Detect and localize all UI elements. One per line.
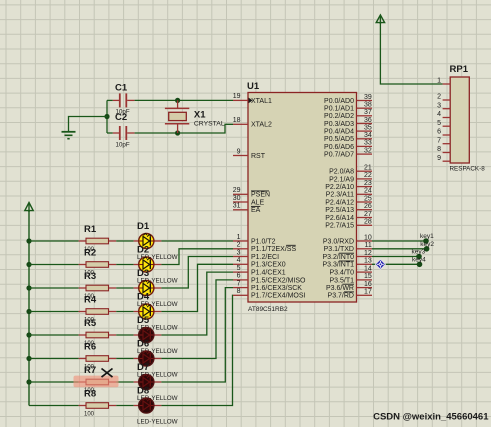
svg-text:27: 27	[364, 211, 372, 218]
wire bus to R4	[29, 311, 79, 313]
svg-text:RP1: RP1	[450, 64, 469, 75]
svg-text:12: 12	[364, 250, 372, 257]
resistor R7 100	[79, 365, 117, 394]
svg-text:38: 38	[364, 102, 372, 109]
wire VCC bus (vertical)	[28, 211, 30, 406]
wire C1/C2 left vertical	[106, 100, 108, 133]
svg-text:PSEN: PSEN	[251, 192, 270, 199]
svg-text:EA: EA	[251, 207, 261, 214]
wire D8 to U1 pin 8	[161, 295, 233, 405]
wire U1 pin 12 to key3	[372, 256, 419, 258]
svg-text:P2.0/A8: P2.0/A8	[329, 169, 354, 176]
svg-text:P3.5/T1: P3.5/T1	[329, 277, 354, 284]
svg-text:D8: D8	[137, 385, 149, 396]
svg-text:D3: D3	[137, 268, 149, 279]
svg-text:P1.4/CEX1: P1.4/CEX1	[251, 270, 286, 277]
wire bus to R5	[29, 334, 79, 336]
ground	[62, 132, 76, 139]
svg-text:23: 23	[364, 180, 372, 187]
power symbol VCC (left rail)	[25, 203, 33, 213]
svg-text:26: 26	[364, 203, 372, 210]
svg-text:39: 39	[364, 94, 372, 101]
svg-text:C1: C1	[115, 82, 128, 93]
svg-text:P0.6/AD6: P0.6/AD6	[324, 144, 354, 151]
svg-text:P2.4/A12: P2.4/A12	[325, 199, 354, 206]
wire bus to R3	[29, 287, 79, 289]
wire bus to R2	[29, 264, 79, 266]
junction bus/R5	[26, 332, 31, 337]
junction bus/R6	[26, 356, 31, 361]
node key1	[420, 233, 434, 244]
svg-text:22: 22	[364, 172, 372, 179]
svg-text:29: 29	[233, 187, 241, 194]
svg-text:15: 15	[364, 273, 372, 280]
svg-text:34: 34	[364, 132, 372, 139]
svg-text:3: 3	[437, 102, 441, 109]
svg-text:1: 1	[237, 234, 241, 241]
svg-text:R8: R8	[84, 389, 96, 400]
svg-text:P3.2/INT0: P3.2/INT0	[322, 254, 354, 261]
svg-text:25: 25	[364, 195, 372, 202]
U1 left pin names	[251, 98, 306, 300]
svg-text:6: 6	[237, 273, 241, 280]
svg-text:XTAL1: XTAL1	[251, 98, 272, 105]
resistor R1 100	[79, 224, 117, 253]
wire U1 pin 10 to key1	[372, 240, 426, 242]
svg-text:32: 32	[364, 147, 372, 154]
svg-text:CSDN @weixin_45660461: CSDN @weixin_45660461	[373, 412, 489, 423]
junction bus/R7	[26, 379, 31, 384]
svg-text:key4: key4	[412, 256, 426, 263]
resistor R2 100	[79, 248, 117, 277]
svg-text:21: 21	[364, 165, 372, 172]
svg-text:5: 5	[437, 120, 441, 127]
svg-text:P3.3/INT1: P3.3/INT1	[322, 262, 354, 269]
svg-text:P0.4/AD4: P0.4/AD4	[324, 129, 354, 136]
svg-text:CRYSTAL: CRYSTAL	[194, 121, 225, 128]
wire D7 to U1 pin 7	[161, 288, 233, 382]
wire D3 to U1 pin 3	[161, 257, 233, 289]
svg-text:RESPACK-8: RESPACK-8	[450, 166, 486, 173]
svg-text:P3.6/WR: P3.6/WR	[326, 285, 354, 292]
svg-text:8: 8	[237, 288, 241, 295]
svg-text:P0.1/AD1: P0.1/AD1	[324, 106, 354, 113]
LED D5 LED-YELLOW	[134, 315, 178, 355]
wire to ground	[69, 117, 108, 132]
svg-text:P2.6/A14: P2.6/A14	[325, 215, 354, 222]
svg-text:4: 4	[237, 257, 241, 264]
svg-text:3: 3	[237, 249, 241, 256]
svg-text:24: 24	[364, 188, 372, 195]
svg-text:P1.2/ECI: P1.2/ECI	[251, 254, 279, 261]
junction X1 top	[175, 98, 180, 103]
svg-text:P2.3/A11: P2.3/A11	[326, 192, 354, 199]
svg-text:36: 36	[364, 117, 372, 124]
svg-text:D5: D5	[137, 315, 150, 326]
junction bus/R3	[26, 285, 31, 290]
svg-text:6: 6	[437, 129, 441, 136]
svg-text:P2.1/A9: P2.1/A9	[329, 176, 354, 183]
svg-text:7: 7	[237, 280, 241, 287]
svg-text:P1.1/T2EX/SS: P1.1/T2EX/SS	[251, 246, 296, 253]
svg-text:C2: C2	[115, 112, 127, 123]
wire bus to R8	[29, 405, 79, 407]
U1 XTAL1 input arrow	[249, 98, 253, 104]
wire R4 to D4	[116, 311, 133, 313]
svg-text:D6: D6	[137, 338, 149, 349]
svg-text:U1: U1	[247, 81, 260, 92]
svg-text:LED-YELLOW: LED-YELLOW	[137, 419, 178, 426]
svg-text:2: 2	[437, 94, 441, 101]
svg-text:16: 16	[364, 281, 372, 288]
svg-text:P1.3/CEX0: P1.3/CEX0	[251, 262, 286, 269]
svg-text:10pF: 10pF	[116, 142, 130, 149]
svg-text:P1.5/CEX2/MISO: P1.5/CEX2/MISO	[251, 277, 306, 284]
svg-text:D2: D2	[137, 244, 149, 255]
svg-text:RST: RST	[251, 153, 266, 160]
svg-text:1: 1	[437, 78, 441, 85]
svg-text:P2.2/A10: P2.2/A10	[325, 184, 354, 191]
svg-text:9: 9	[237, 148, 241, 155]
svg-text:31: 31	[233, 203, 241, 210]
node key4	[412, 256, 426, 267]
svg-text:13: 13	[364, 258, 372, 265]
svg-text:14: 14	[364, 265, 372, 272]
svg-text:D4: D4	[137, 291, 150, 302]
highlight box on R7	[74, 376, 119, 388]
svg-text:P0.0/AD0: P0.0/AD0	[324, 98, 354, 105]
junction caps/ground	[104, 114, 109, 119]
power symbol VCC (top right)	[376, 15, 384, 24]
svg-text:P1.7/CEX4/MOSI: P1.7/CEX4/MOSI	[251, 293, 306, 300]
svg-text:18: 18	[233, 117, 241, 124]
svg-text:7: 7	[437, 137, 441, 144]
svg-text:37: 37	[364, 109, 372, 116]
svg-text:R6: R6	[84, 342, 96, 353]
node key3	[412, 249, 426, 260]
wire bus to R6	[29, 358, 79, 360]
LED D6 LED-YELLOW	[134, 338, 178, 378]
resistor R8 100	[79, 389, 117, 418]
svg-text:P3.4/T0: P3.4/T0	[329, 270, 354, 277]
svg-text:X1: X1	[194, 110, 206, 121]
svg-text:XTAL2: XTAL2	[251, 122, 272, 129]
svg-text:P2.5/A13: P2.5/A13	[325, 207, 354, 214]
U1 left pin stubs and numbers	[233, 93, 248, 295]
svg-text:R1: R1	[84, 224, 97, 235]
junction bus/R1	[26, 238, 31, 243]
svg-text:P1.6/CEX3/SCK: P1.6/CEX3/SCK	[251, 285, 302, 292]
crystal X1	[165, 100, 225, 133]
wire R1 to D1	[116, 240, 133, 242]
svg-text:P3.1/TXD: P3.1/TXD	[324, 246, 354, 253]
RP1 pin stubs and numbers	[437, 78, 450, 162]
svg-text:9: 9	[437, 155, 441, 162]
capacitor C1 10pF	[113, 82, 135, 115]
junction bus/R2	[26, 262, 31, 267]
wire XTAL1 net (C1 to U1 pin 19)	[135, 99, 233, 101]
wire D1 to U1 pin 1	[161, 240, 233, 242]
wire R3 to D3	[116, 287, 133, 289]
svg-text:P2.7/A15: P2.7/A15	[325, 223, 354, 230]
svg-text:100: 100	[84, 411, 95, 417]
svg-text:key3: key3	[412, 249, 426, 256]
LED D8 LED-YELLOW	[134, 385, 178, 425]
svg-text:P0.5/AD5: P0.5/AD5	[324, 136, 354, 143]
capacitor C2 10pF	[113, 112, 135, 149]
svg-text:R2: R2	[84, 248, 96, 259]
LED D1 LED-YELLOW	[134, 221, 178, 261]
resistor R6 100	[79, 342, 117, 371]
wire D6 to U1 pin 6	[161, 280, 233, 359]
wire D2 to U1 pin 2	[161, 249, 233, 265]
svg-text:P1.0/T2: P1.0/T2	[251, 238, 276, 245]
LED D4 LED-YELLOW	[134, 291, 178, 331]
svg-text:key2: key2	[420, 241, 434, 248]
IC U1 AT89C51RB2	[247, 81, 357, 313]
junction X1 bottom	[175, 130, 180, 135]
svg-text:5: 5	[237, 265, 241, 272]
origin marker (blue diamond)	[376, 260, 386, 270]
wire U1 pin 11 to key2	[372, 248, 427, 250]
delete X marker on R7	[102, 369, 113, 378]
svg-text:P0.3/AD3: P0.3/AD3	[324, 121, 354, 128]
wire D4 to U1 pin 4	[161, 264, 233, 311]
svg-text:8: 8	[437, 146, 441, 153]
svg-text:R4: R4	[84, 295, 97, 306]
svg-text:11: 11	[365, 242, 372, 249]
LED D7 LED-YELLOW	[134, 362, 178, 402]
svg-text:30: 30	[233, 195, 241, 202]
resistor R4 100	[79, 295, 117, 324]
svg-text:P3.0/RXD: P3.0/RXD	[323, 238, 354, 245]
svg-text:17: 17	[364, 289, 372, 296]
svg-text:key1: key1	[420, 233, 434, 240]
svg-text:35: 35	[364, 124, 372, 131]
wire U1 pin 13 to key4	[372, 263, 420, 265]
wire R6 to D6	[116, 358, 133, 360]
LED D3 LED-YELLOW	[134, 268, 178, 308]
resistor pack RP1 RESPACK-8	[450, 64, 486, 173]
svg-text:D1: D1	[137, 221, 150, 232]
wire R5 to D5	[116, 334, 133, 336]
U1 right pin stubs and numbers	[357, 94, 373, 296]
wire D5 to U1 pin 5	[161, 272, 233, 335]
svg-text:P0.7/AD7: P0.7/AD7	[324, 152, 354, 159]
U1 right pin names	[322, 98, 354, 300]
node key2	[420, 241, 434, 252]
wire R2 to D2	[116, 264, 133, 266]
svg-text:AT89C51RB2: AT89C51RB2	[248, 306, 288, 313]
svg-text:2: 2	[237, 242, 241, 249]
svg-text:P3.7/RD: P3.7/RD	[328, 293, 354, 300]
svg-text:10: 10	[364, 234, 372, 241]
svg-text:28: 28	[364, 219, 372, 226]
LED D2 LED-YELLOW	[134, 244, 178, 284]
wire XTAL2 net (C2 to U1 pin 18)	[135, 124, 233, 133]
svg-text:4: 4	[437, 111, 441, 118]
wire R7 to D7	[116, 381, 133, 383]
svg-text:P0.2/AD2: P0.2/AD2	[324, 113, 354, 120]
svg-text:R5: R5	[84, 318, 97, 329]
wire bus to R1	[29, 240, 79, 242]
svg-text:R7: R7	[84, 365, 96, 376]
svg-text:33: 33	[364, 140, 372, 147]
wire R8 to D8	[116, 405, 133, 407]
wire bus to R7	[29, 381, 79, 383]
svg-text:ALE: ALE	[251, 199, 265, 206]
svg-text:D7: D7	[137, 362, 149, 373]
svg-text:19: 19	[233, 93, 241, 100]
junction bus/R4	[26, 309, 31, 314]
resistor R5 100	[79, 318, 117, 347]
svg-text:R3: R3	[84, 271, 96, 282]
wire VCC to RP1 pin 1	[380, 23, 442, 84]
resistor R3 100	[79, 271, 117, 300]
